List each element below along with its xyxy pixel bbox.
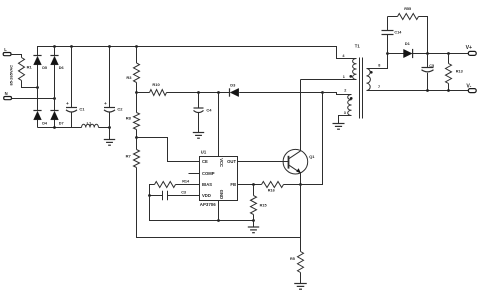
transistor Q1 [283,149,315,174]
wire N terminal to bridge node [12,97,56,100]
resistor R15 [251,185,267,221]
svg-text:7: 7 [378,85,380,89]
svg-text:R15: R15 [260,203,267,207]
transformer T1 secondary phase dot [370,71,373,74]
resistor R13 [446,54,463,91]
svg-text:C1: C1 [79,106,85,111]
resistor R55 [388,7,428,54]
transformer T1 aux winding [348,95,352,116]
wire R1 to bridge node [22,81,39,89]
resistor R1 [19,58,33,81]
capacitor C3 [148,190,199,200]
resistor R10 [137,82,167,95]
resistor R14 [150,179,200,195]
svg-text:AP3706: AP3706 [200,202,216,207]
svg-text:D1: D1 [405,41,411,46]
wire top rail to transformer pin 4 [38,45,357,58]
wire aux node to emitter node [301,93,323,185]
wire bridge left leg [37,65,39,128]
svg-text:U1: U1 [201,150,207,155]
text 85-265VAC input rating [8,65,13,86]
svg-text:R1: R1 [27,65,33,70]
capacitor C4 [194,93,213,133]
capacitor C5 [422,54,435,91]
svg-text:VCC: VCC [219,158,224,167]
terminal V+ [466,45,477,55]
svg-text:3: 3 [344,111,346,115]
ground below R5 [294,284,307,290]
terminal V- [466,84,476,93]
svg-text:R10: R10 [152,82,160,87]
transformer T1 label [355,43,361,48]
svg-text:R8: R8 [126,115,132,120]
svg-text:GND: GND [219,190,224,199]
wire FB to R16/R15 [238,183,255,186]
wire OUT to Q1 base [238,161,289,163]
ground below C2 [104,128,115,146]
svg-text:BIAS: BIAS [202,182,212,187]
diode D5 [33,56,47,71]
svg-text:+: + [66,102,69,107]
svg-text:D6: D6 [59,66,64,70]
svg-text:+: + [104,102,107,107]
wire R7 to current-sense node [137,168,301,238]
svg-text:CE: CE [202,159,208,164]
transformer T1 secondary winding [367,69,371,91]
capacitor C2 [104,47,123,128]
resistor R8 [126,93,140,130]
svg-text:V-: V- [466,84,471,90]
svg-text:C14: C14 [394,30,402,34]
wire transformer pin 3 to ground [339,111,352,124]
svg-text:85-265VAC: 85-265VAC [8,65,13,86]
svg-text:R55: R55 [404,7,411,11]
wire D1 cathode to V+ terminal [413,52,469,55]
svg-text:L: L [4,47,7,52]
svg-text:D5: D5 [42,66,47,70]
transformer T1 primary phase dot [349,75,352,78]
svg-text:VDD: VDD [202,193,211,198]
diode D6 [50,56,63,71]
svg-text:C5: C5 [429,64,434,68]
diode D7 [50,111,63,126]
svg-text:C2: C2 [117,106,123,111]
capacitor C1 [66,47,85,128]
diode D1 [388,41,413,58]
wire bottom rail [38,126,111,129]
svg-text:D7: D7 [59,121,64,125]
wire GND pin [218,201,220,221]
resistor R7 [126,138,140,168]
transformer T1 primary winding [353,59,357,80]
svg-text:1: 1 [343,75,345,79]
svg-text:COMP: COMP [202,171,215,176]
resistor R3 [126,47,139,83]
terminal N (AC neutral input) [4,91,12,100]
svg-text:2: 2 [344,89,346,93]
ground below C4 [193,133,204,139]
svg-text:R16: R16 [268,188,275,192]
svg-text:L1: L1 [87,120,92,125]
svg-text:OUT: OUT [227,159,236,164]
svg-text:8: 8 [378,64,380,68]
svg-text:C4: C4 [206,108,212,113]
transformer T1 pin 4 number [342,54,345,58]
wire R8 to CE pin [135,130,199,162]
wire D3 to transformer pin 2 [239,89,351,95]
svg-text:C3: C3 [181,190,186,194]
wire L terminal to R1 [11,55,22,58]
svg-text:V+: V+ [466,45,473,51]
svg-text:R3: R3 [126,75,132,80]
wire T1 pin 8 to D1 anode [367,52,389,68]
svg-text:R7: R7 [126,153,132,158]
svg-text:D3: D3 [230,83,236,88]
resistor R16 [254,182,301,193]
transformer T1 aux phase dot [350,97,353,100]
svg-text:R13: R13 [456,69,463,73]
terminal L (AC line input) [3,47,11,56]
resistor R5 [290,252,304,284]
wire Q1 emitter to node [299,173,302,186]
transformer T1 core [360,58,363,119]
svg-text:T1: T1 [355,43,361,48]
svg-text:Q1: Q1 [309,154,315,159]
wire transformer pin 1 to collector [301,75,357,80]
ground at T1 pin 3 [333,124,345,130]
svg-text:FB: FB [230,182,236,187]
diode D4 [33,111,48,126]
svg-text:N: N [5,91,8,96]
diode D3 [230,83,239,97]
wire T1 pin 7 to V- terminal [367,85,469,92]
wire Q1 collector riser [300,80,302,151]
IC U1 AP3706 [200,150,238,207]
wire sense node down to R5 [300,185,302,252]
svg-text:R5: R5 [290,257,295,261]
wire VDD node to ground run [150,196,255,222]
wire COMP stub [189,173,200,175]
capacitor C14 [382,17,403,54]
wire R10 to D3 [167,91,230,94]
inductor L1 [82,120,99,127]
wire bridge right leg [54,47,56,128]
wire VCC riser [218,93,220,157]
node A (R3/R10/R8 junction) [135,83,138,94]
ground at IC/R15 [248,221,259,233]
svg-text:R14: R14 [182,179,190,183]
